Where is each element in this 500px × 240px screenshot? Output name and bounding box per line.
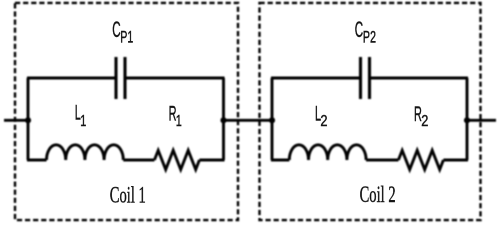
svg-text:Coil 1: Coil 1 <box>110 183 146 208</box>
svg-text:C: C <box>112 17 121 42</box>
wire: R2 to right corner segment <box>443 159 468 162</box>
wire: R1 to right corner segment <box>199 159 224 162</box>
wire: coil 2 right vertical branch <box>466 78 469 160</box>
capacitor CP2 (plates) <box>361 57 370 99</box>
wire: coil 1 left vertical branch <box>27 78 30 160</box>
coil 2 enclosure (dashed box) <box>260 3 481 220</box>
wire: external left stub <box>4 119 28 122</box>
svg-text:2: 2 <box>320 113 327 131</box>
inductor L1 <box>47 145 124 160</box>
svg-text:Coil 2: Coil 2 <box>360 183 396 208</box>
wire: coil 1 bottom left segment <box>27 159 47 162</box>
wire: coil 2 top right segment <box>370 77 468 80</box>
resistor R2 (zigzag) <box>398 150 443 169</box>
node: coil 1 input junction <box>25 117 31 123</box>
label CP2 <box>355 17 377 46</box>
svg-text:1: 1 <box>176 112 182 130</box>
label R1 <box>169 101 182 129</box>
node: coil 2 output junction <box>464 117 470 123</box>
inductor L2 <box>289 145 366 160</box>
wire: coil 1 right vertical branch <box>222 78 225 160</box>
node: coil 1 output junction <box>220 117 226 123</box>
label L2 <box>315 101 328 130</box>
wire: coil 2 bottom left segment <box>271 159 289 162</box>
svg-text:C: C <box>355 17 364 42</box>
svg-text:P2: P2 <box>363 27 376 46</box>
wire: link between coil 1 and coil 2 <box>224 119 273 122</box>
wire: coil 2 left vertical branch <box>271 78 274 160</box>
wire: coil 1 top right segment <box>126 77 225 80</box>
wire: L2 to R2 segment <box>366 159 398 162</box>
wire: L1 to R1 segment <box>123 159 154 162</box>
svg-text:P1: P1 <box>120 27 133 46</box>
resistor R1 (zigzag) <box>154 150 199 169</box>
coil 1 enclosure (dashed box) <box>15 3 238 220</box>
label R2 <box>414 102 428 130</box>
label CP1 <box>112 17 133 46</box>
wire: external right stub <box>467 119 496 122</box>
wire: coil 2 top left segment <box>271 77 360 80</box>
svg-text:2: 2 <box>421 113 428 131</box>
node: coil 2 input junction <box>269 117 275 123</box>
wire: coil 1 top left segment <box>27 77 115 80</box>
label L1 <box>75 101 87 130</box>
svg-text:1: 1 <box>80 112 86 130</box>
capacitor CP1 (plates) <box>116 57 125 99</box>
